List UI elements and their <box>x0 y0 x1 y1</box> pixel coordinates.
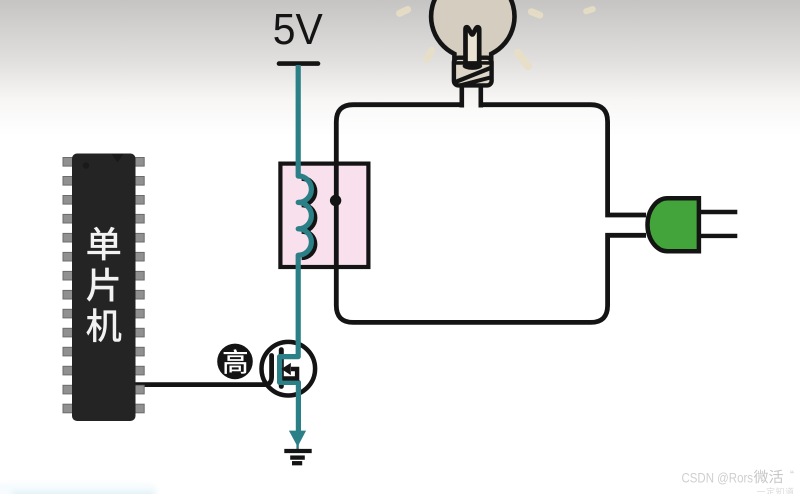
MCU U1 label 片 <box>87 268 119 302</box>
wire lamp loop (bulb branch to plug, top-right) <box>481 105 646 215</box>
lamp DS1 screw base <box>454 58 492 86</box>
wire gate lead from MCU <box>134 356 272 385</box>
plug P1 prong lower <box>699 234 737 238</box>
wire lamp loop (plug return via relay contact, left side) <box>336 105 646 323</box>
lamp glow dash upper-right <box>527 7 544 19</box>
MCU U1 label 单 <box>87 227 120 261</box>
plug P1 body <box>648 198 699 251</box>
watermark 微 <box>754 470 768 484</box>
lamp glow dash far-right <box>582 5 596 15</box>
lamp DS1 base shadow blob <box>463 62 483 70</box>
lamp glow dash left <box>422 46 436 64</box>
MCU U1 label 机 <box>86 308 121 342</box>
svg-text:“: “ <box>790 468 794 482</box>
wire 5V supply + relay K1 coil + Q1 drain-channel-source (teal) <box>280 65 312 432</box>
MCU U1 body <box>72 154 136 422</box>
MCU U1 pins <box>63 158 144 413</box>
watermark small line2 <box>757 490 765 493</box>
ground bar 1 <box>284 449 311 453</box>
plug P1 prong upper <box>699 210 737 214</box>
badge text 高 <box>224 349 247 374</box>
MCU U1 pin1 dot <box>83 162 89 168</box>
lamp DS1 lead right <box>478 85 483 108</box>
svg-text:CSDN @Rors: CSDN @Rors <box>682 471 754 486</box>
lamp DS1 glass bulb <box>431 0 514 59</box>
MCU U1 notch <box>112 154 124 163</box>
subtitle box remnant bottom-left <box>0 483 158 499</box>
transistor Q1 MOSFET circle <box>262 342 316 396</box>
lamp DS1 base threads <box>450 67 494 88</box>
ground stem <box>296 444 298 450</box>
ground bar 2 <box>290 455 305 459</box>
lamp DS1 base collar line <box>455 61 492 65</box>
lamp DS1 lead left <box>459 85 464 108</box>
node relay contact junction <box>330 195 341 206</box>
lamp glow dash right <box>512 47 534 72</box>
transistor Q1 body diode connection <box>283 369 298 378</box>
watermark 活 <box>769 470 783 484</box>
5V power rail bar <box>279 61 318 66</box>
relay K1 coil shadow <box>302 178 315 257</box>
transistor Q1 channel bar <box>279 350 284 387</box>
lamp glow dash upper-left <box>395 5 412 18</box>
transistor Q1 body arrow head <box>281 363 291 375</box>
lamp glow dashes <box>395 5 597 72</box>
svg-text:5V: 5V <box>273 5 324 54</box>
gate level badge (high) <box>217 344 253 380</box>
ground bar 3 <box>292 461 302 465</box>
lamp loop interior highlight <box>339 107 605 320</box>
lamp DS1 filament tube <box>466 27 480 64</box>
ground arrow (teal) <box>289 431 306 447</box>
relay K1 body <box>280 164 368 267</box>
